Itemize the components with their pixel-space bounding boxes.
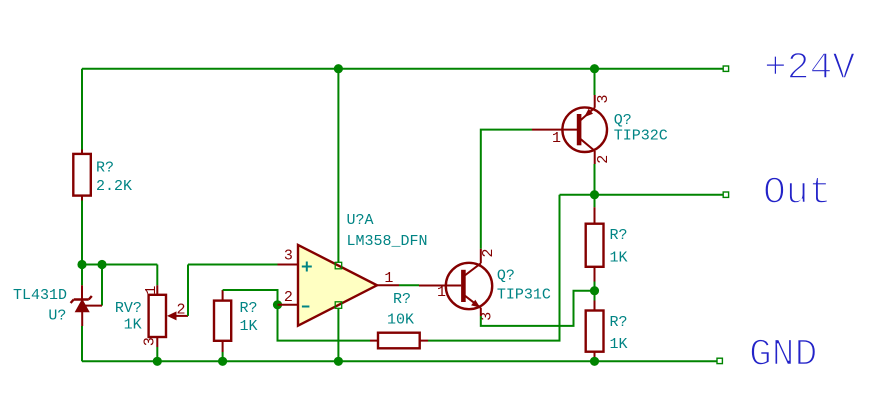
- svg-text:1: 1: [384, 270, 393, 287]
- wire TL431 ref riser: [101, 265, 103, 306]
- resistor R? 1K (lower right): [586, 301, 604, 358]
- resistor R? 2.2K: [73, 150, 91, 201]
- resistor R? 1K (middle): [214, 290, 231, 352]
- wire Out rail: [560, 194, 724, 196]
- value label R? 10K: [387, 291, 414, 328]
- resistor R? 1K (upper right): [586, 207, 604, 281]
- node top rail op-amp junction: [334, 64, 343, 73]
- label +24V: [764, 47, 855, 90]
- svg-text:TIP32C: TIP32C: [614, 128, 668, 145]
- label Out: [763, 171, 831, 214]
- wire +24V top rail: [82, 68, 724, 70]
- potentiometer RV? 1K: [149, 285, 188, 347]
- wire Q2 collector to Out rail: [594, 164, 596, 195]
- value label R? 1K (lower right): [610, 314, 628, 353]
- wire Q1 emitter to divider tap: [481, 291, 595, 326]
- wire Out rail to upper 1K: [594, 195, 596, 208]
- node top rail Q2 junction: [590, 64, 599, 73]
- wire horizontal to pot pin1: [82, 264, 157, 266]
- pin number 1 (Q2 base): [552, 130, 561, 147]
- wire pot pin3 to GND: [156, 347, 158, 361]
- svg-text:R?: R?: [240, 300, 258, 317]
- svg-text:2: 2: [595, 155, 612, 164]
- wire inverting input drop to 10K: [278, 305, 371, 341]
- svg-text:1K: 1K: [610, 250, 628, 267]
- svg-text:2: 2: [177, 301, 186, 318]
- svg-text:GND: GND: [749, 334, 817, 377]
- svg-text:2.2K: 2.2K: [96, 178, 132, 195]
- wire wiper to op-amp plus input: [188, 264, 278, 266]
- svg-text:1: 1: [437, 284, 446, 301]
- value label Q? TIP31C: [497, 268, 551, 304]
- svg-text:Q?: Q?: [614, 112, 632, 129]
- wire left vertical R1 to TL431: [81, 201, 83, 286]
- node middle 1K GND junction: [218, 357, 227, 366]
- value label TL431D U?: [13, 287, 67, 325]
- svg-text:10K: 10K: [387, 311, 414, 328]
- wire middle 1K bottom to GND: [222, 352, 224, 361]
- svg-text:3: 3: [284, 247, 293, 264]
- pin number 1 (Q1 base): [437, 284, 446, 301]
- pin number 1 (op-amp out): [384, 270, 393, 287]
- transistor Q? TIP31C: [419, 249, 492, 316]
- node pot GND junction: [153, 357, 162, 366]
- wire middle 1K top to inverting input: [223, 290, 278, 305]
- wire upper 1K to tap: [594, 282, 596, 291]
- wire lower 1K to GND: [594, 357, 596, 361]
- node inverting input junction: [273, 300, 282, 309]
- value label R? 1K (upper right): [610, 227, 628, 267]
- wire 10K to Out riser: [428, 195, 560, 341]
- svg-text:Out: Out: [763, 171, 831, 214]
- pin number 3 (pot bottom): [141, 337, 158, 346]
- transistor Q? TIP32C: [532, 95, 607, 164]
- value label R? 2.2K: [96, 160, 132, 196]
- pin number 3 (Q2 emitter): [595, 94, 612, 103]
- pin number 3 (op-amp +): [284, 247, 293, 264]
- label GND: [749, 334, 817, 377]
- svg-text:U?: U?: [48, 308, 66, 325]
- node TL431 ref junction: [97, 260, 106, 269]
- svg-text:+24V: +24V: [764, 47, 855, 90]
- value label Q? TIP32C: [614, 112, 668, 145]
- svg-text:R?: R?: [96, 160, 114, 177]
- value label R? 1K (middle): [240, 300, 258, 335]
- wire Q1 collector to Q2 base corner: [481, 130, 532, 249]
- svg-text:2: 2: [284, 289, 293, 306]
- terminal square GND: [717, 358, 722, 363]
- node Out rail junction: [590, 190, 599, 199]
- svg-text:1: 1: [552, 130, 561, 147]
- pin number 2 (Q1 collector): [480, 248, 497, 257]
- wire left vertical from +24V to R1: [81, 69, 83, 150]
- value label U?A LM358_DFN: [347, 212, 428, 250]
- value label RV? 1K: [115, 300, 142, 333]
- wire TL431 anode to GND: [81, 326, 83, 361]
- pin number 3 (Q1 emitter): [479, 312, 496, 321]
- svg-text:1: 1: [143, 286, 160, 295]
- svg-text:3: 3: [141, 337, 158, 346]
- wire wiper riser: [187, 265, 189, 316]
- pin number 2 (pot wiper): [177, 301, 186, 318]
- svg-text:1K: 1K: [124, 316, 142, 333]
- svg-text:TL431D: TL431D: [13, 287, 67, 304]
- wire op-amp V+ riser: [337, 69, 339, 263]
- pin number 2 (Q2 collector): [595, 155, 612, 164]
- pin V- unconnected square: [335, 302, 342, 309]
- svg-text:2: 2: [480, 248, 497, 257]
- pin V+ unconnected square: [335, 262, 342, 269]
- svg-text:RV?: RV?: [115, 300, 142, 317]
- svg-text:1K: 1K: [610, 336, 628, 353]
- wire op-amp V- to GND: [337, 309, 339, 362]
- node divider tap junction: [590, 286, 599, 295]
- resistor R? 10K: [370, 333, 428, 349]
- svg-text:U?A: U?A: [347, 212, 374, 229]
- terminal square Out: [723, 192, 728, 197]
- svg-text:R?: R?: [610, 314, 628, 331]
- svg-text:R?: R?: [610, 227, 628, 244]
- pin number 1 (pot top): [143, 286, 160, 295]
- svg-text:1K: 1K: [240, 318, 258, 335]
- node op-amp GND junction: [334, 357, 343, 366]
- wire Q2 emitter to +24V: [594, 69, 596, 95]
- shunt regulator U? TL431D: [71, 285, 102, 326]
- node lower 1K GND junction: [590, 357, 599, 366]
- wire tap to lower 1K: [594, 291, 596, 301]
- svg-text:R?: R?: [393, 291, 411, 308]
- wire pot pin1 drop: [156, 265, 158, 286]
- svg-text:TIP31C: TIP31C: [497, 286, 551, 303]
- svg-text:3: 3: [595, 94, 612, 103]
- terminal square +24V: [723, 66, 728, 71]
- svg-text:LM358_DFN: LM358_DFN: [347, 233, 428, 250]
- wire op-amp out to Q1 base: [399, 284, 419, 286]
- op-amp U?A LM358_DFN: [278, 245, 400, 326]
- pin number 2 (op-amp -): [284, 289, 293, 306]
- wire GND rail: [82, 360, 717, 362]
- node left rail junction: [77, 260, 86, 269]
- svg-text:Q?: Q?: [497, 268, 515, 285]
